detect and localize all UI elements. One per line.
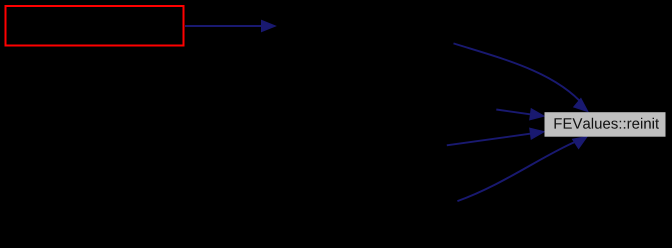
wire: edge 3 (straight, upper)	[496, 110, 531, 115]
wire: edge 5 (bottom curve)	[457, 142, 576, 202]
node: arrowhead 1	[262, 20, 276, 31]
wire: edge 1 horizontal	[185, 25, 262, 27]
wire: edge 2 (top curve)	[454, 43, 585, 105]
wire: edge 4 (straight, lower)	[447, 134, 531, 146]
node: FEValues::reinit (gray box)	[545, 112, 666, 137]
node: current function (red box, label hidden on black)	[6, 6, 184, 46]
node: arrowhead 3	[530, 109, 545, 120]
node: arrowhead 2	[574, 98, 588, 111]
node: arrowhead 4	[530, 128, 545, 139]
node: arrowhead 5	[573, 136, 588, 148]
